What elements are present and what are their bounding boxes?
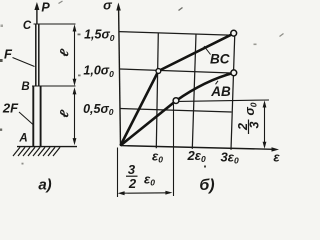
force arrow P (34, 2, 39, 24)
svg-text:A: A (18, 133, 27, 145)
paper background (0, 0, 285, 200)
svg-text:2: 2 (128, 176, 137, 191)
svg-text:P: P (41, 1, 50, 15)
scan speck below 2eps0 (204, 166, 206, 168)
gridline 3eps0 vertical (231, 34, 235, 150)
dimension line l (upper segment) (73, 24, 77, 86)
top cap line at C (34, 23, 76, 25)
scan speck right of circles (254, 44, 257, 46)
scan speck left edge mid (0, 59, 3, 62)
curve BC (upper bilinear) (121, 33, 234, 145)
svg-text:B: B (21, 81, 29, 93)
scan speck right edge (280, 34, 284, 37)
svg-text:а): а) (38, 177, 51, 194)
sigma axis (116, 3, 121, 147)
epsilon axis (121, 146, 280, 152)
leader to AB label (216, 81, 219, 85)
svg-text:3: 3 (128, 162, 136, 177)
node: AB yield point (173, 98, 179, 104)
gridline 1.0 sigma0 (119, 69, 231, 73)
dimension line 3/2 eps0 (118, 191, 173, 196)
gridline 0.5 sigma0 (120, 109, 232, 113)
scan speck left edge upper (1, 25, 4, 28)
gridline 1.5 sigma0 (119, 32, 234, 36)
node: BC end point (231, 30, 237, 36)
ground hatching (13, 147, 60, 156)
dimension line 2/3 sigma0 (263, 100, 267, 148)
scan speck left of 1,0sigma0 (78, 75, 81, 77)
node: AB end point (231, 70, 237, 76)
gridline 2eps0 vertical (192, 34, 196, 149)
extension line below origin (117, 148, 119, 198)
wide column segment (area 2F) (33, 86, 40, 147)
dimension line l (lower segment) (73, 87, 77, 145)
leader line 2F (19, 112, 33, 125)
svg-text:σ: σ (103, 0, 113, 13)
leader to BC label (204, 46, 211, 55)
svg-text:F: F (4, 47, 13, 62)
leader line F (13, 58, 35, 67)
scan speck above grid (179, 8, 183, 11)
extension line right of AB yield point (179, 100, 269, 101)
scan speck left of 1,5sigma0 (78, 34, 81, 36)
svg-text:б): б) (199, 177, 214, 194)
curve AB (lower bilinear) (121, 73, 234, 146)
ground line (17, 146, 77, 148)
label 2/3 sigma0 (rotated) (236, 102, 262, 134)
label 3/2 eps0 fraction (126, 162, 155, 191)
svg-text:AB: AB (210, 84, 231, 99)
node: BC yield point (156, 69, 161, 74)
svg-text:C: C (23, 20, 32, 32)
thin column segment (area F) (36, 24, 39, 86)
svg-text:2F: 2F (2, 101, 19, 116)
cap line at B (32, 85, 76, 87)
extension line below AB yield point (173, 104, 175, 197)
svg-text:ε: ε (273, 150, 280, 165)
scan speck near hatch (22, 163, 24, 165)
scan speck left edge lower (0, 129, 2, 131)
scan speck top left (59, 1, 63, 4)
svg-text:3: 3 (248, 121, 262, 128)
svg-text:BC: BC (210, 52, 230, 67)
gridline eps0 vertical (156, 33, 158, 148)
